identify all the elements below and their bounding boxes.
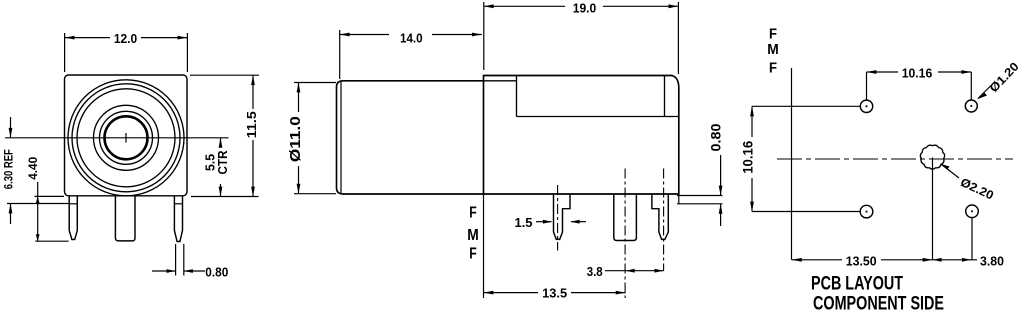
svg-text:14.0: 14.0 <box>400 31 423 46</box>
dimension 4.40 line <box>37 182 39 241</box>
front view center hole <box>105 116 148 159</box>
side view barrel rim line <box>340 81 342 193</box>
pcb dia 2.20 leader <box>942 165 960 179</box>
dimension 4.40 extension line pin tip <box>35 240 68 242</box>
side view pin 3 <box>652 194 668 239</box>
front view circle 3 <box>77 89 175 187</box>
pcb dimension 10.16 left ticks <box>752 105 860 107</box>
dimension 6.30 REF line <box>10 117 12 138</box>
svg-text:F: F <box>769 25 777 42</box>
svg-text:F: F <box>469 205 477 222</box>
pcb layout reference line <box>791 68 793 260</box>
side view center pin <box>614 194 637 241</box>
pcb center hole <box>920 145 944 169</box>
dimension 14.0 line <box>340 34 389 36</box>
pcb dimension 13.50 line <box>792 259 842 261</box>
svg-text:0.80: 0.80 <box>205 264 228 279</box>
svg-text:19.0: 19.0 <box>573 0 597 15</box>
svg-text:3.8: 3.8 <box>587 264 603 279</box>
svg-text:3.80: 3.80 <box>980 254 1004 269</box>
front view right pin <box>174 196 182 242</box>
front view body <box>65 75 188 196</box>
front view horizontal center line <box>5 137 229 139</box>
side view barrel top edge to step <box>484 80 517 82</box>
svg-text:F: F <box>769 59 777 76</box>
pcb dia 1.20 leader <box>978 86 991 99</box>
svg-text:13.50: 13.50 <box>846 254 877 269</box>
pcb hole bottom left <box>860 205 873 218</box>
dimension 11.5 line <box>252 75 254 109</box>
dimension 3.8 line <box>605 270 664 272</box>
dimension 13.5 line <box>484 292 539 294</box>
svg-text:10.16: 10.16 <box>741 140 756 173</box>
svg-text:1.5: 1.5 <box>515 215 533 230</box>
dimension dia 11.0 ticks <box>294 82 336 84</box>
dimension 19.0 extension lines <box>483 2 485 70</box>
dimension 1.5 arrows <box>536 221 552 223</box>
side view pin 1 centerline <box>557 185 559 251</box>
svg-text:M: M <box>467 227 479 244</box>
side view barrel <box>337 81 484 194</box>
svg-text:COMPONENT SIDE: COMPONENT SIDE <box>813 293 944 312</box>
dimension 0.80 side view line <box>720 155 722 196</box>
dimension 14.0 extension line <box>339 30 341 79</box>
dimension 19.0 line <box>484 5 565 7</box>
side view pin 3 centerline <box>663 169 665 271</box>
side view pin 1 blade <box>554 194 571 239</box>
svg-text:0.80: 0.80 <box>709 124 724 152</box>
pcb hole top right <box>965 100 977 112</box>
svg-text:11.5: 11.5 <box>244 111 259 138</box>
dimension 0.80 front view extension lines <box>175 244 177 276</box>
label 4.40 <box>27 155 39 182</box>
svg-text:12.0: 12.0 <box>114 31 137 46</box>
pcb hole center dots <box>866 105 868 107</box>
svg-text:CTR: CTR <box>215 150 230 175</box>
front view center tick <box>125 133 127 143</box>
svg-text:Ø1.20: Ø1.20 <box>987 59 1022 95</box>
svg-text:4.40: 4.40 <box>26 156 40 179</box>
label dia 11.0 <box>288 113 302 165</box>
dimension 11.5 extension lines <box>190 74 259 76</box>
side view inner horizontal line <box>517 116 679 118</box>
svg-text:Ø11.0: Ø11.0 <box>287 116 304 162</box>
label 10.16 left <box>740 139 754 176</box>
dimension 5.5 CTR line <box>220 138 222 146</box>
pcb dimension 3.80 line <box>933 259 978 261</box>
front view left pin <box>69 196 77 240</box>
side view inner vertical line <box>664 76 666 117</box>
front view center pin <box>115 196 135 241</box>
svg-text:6.30 REF: 6.30 REF <box>2 149 16 189</box>
pcb dimension 10.16 left line <box>751 106 753 137</box>
dimension 13.5 extension line <box>483 194 485 298</box>
svg-text:10.16: 10.16 <box>902 66 933 81</box>
pcb bottom right hole extension <box>971 218 973 260</box>
dimension 4.40 extension line body bottom <box>35 195 65 197</box>
side view seating plane lines <box>677 195 723 197</box>
front view left pin shoulder tick <box>69 203 77 205</box>
front view circle 2 <box>72 84 180 192</box>
dimension 12.0 extension lines <box>64 33 66 72</box>
pcb hole bottom right <box>966 205 979 218</box>
side view step vertical <box>516 76 518 117</box>
svg-text:F: F <box>469 246 477 263</box>
front view circle 4 <box>94 105 159 170</box>
svg-text:M: M <box>767 41 779 58</box>
side view body block <box>484 76 679 195</box>
dimension 6.30 REF extension line <box>7 203 69 205</box>
svg-text:Ø2.20: Ø2.20 <box>958 175 996 203</box>
pcb dimension 10.16 top line <box>867 71 899 73</box>
dimension 0.80 front view line <box>152 270 176 272</box>
side view center pin centerline <box>624 169 626 299</box>
svg-text:13.5: 13.5 <box>542 286 567 301</box>
front view circle 5 <box>100 111 153 164</box>
label 12.0 <box>111 32 141 44</box>
svg-text:PCB LAYOUT: PCB LAYOUT <box>811 274 903 295</box>
pcb hole top left <box>860 100 872 112</box>
pcb layout horizontal centerline <box>777 158 1013 160</box>
front view outer circle <box>68 80 184 196</box>
dimension dia 11.0 line <box>298 83 300 113</box>
pcb dimension 10.16 top ticks <box>866 72 868 100</box>
pcb center hole extension <box>932 158 934 260</box>
front view right pin shoulder tick <box>174 203 182 205</box>
dimension 12.0 line <box>65 37 110 39</box>
